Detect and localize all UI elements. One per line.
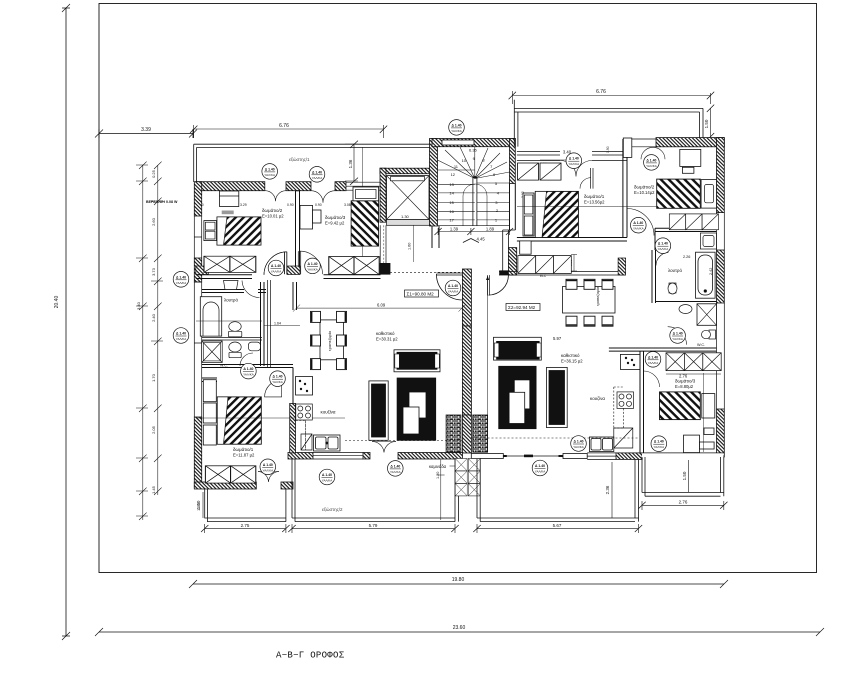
oval sink bbox=[679, 305, 692, 314]
counter dashed bbox=[614, 387, 624, 428]
planter x-boxes between balconies bbox=[455, 459, 480, 496]
svg-text:1.45: 1.45 bbox=[151, 485, 156, 494]
elevator top wall bbox=[380, 168, 432, 174]
svg-text:6.76: 6.76 bbox=[279, 123, 289, 129]
bedroom2 N wall hatched bbox=[656, 138, 724, 147]
kitchen E wall bbox=[640, 351, 644, 453]
svg-text:1.39: 1.39 bbox=[450, 227, 459, 232]
corridor dotted line bbox=[382, 271, 462, 273]
svg-text:1.70: 1.70 bbox=[151, 373, 156, 382]
bath N wall bbox=[202, 290, 244, 293]
rug/sofa block bbox=[397, 378, 436, 440]
svg-text:δωμάτιο/2: δωμάτιο/2 bbox=[634, 184, 655, 190]
svg-text:23.60: 23.60 bbox=[453, 625, 466, 631]
svg-text:δωμάτιο/2: δωμάτιο/2 bbox=[262, 207, 283, 213]
S wall of bedrooms 2,3 (corridor wall) bbox=[196, 275, 252, 279]
svg-text:16: 16 bbox=[449, 209, 454, 214]
svg-text:τραπεζαρία: τραπεζαρία bbox=[327, 330, 332, 351]
hall wall double line bbox=[268, 280, 271, 368]
svg-text:2.42: 2.42 bbox=[709, 268, 713, 275]
elevator west wall extension down to entrance jamb bbox=[380, 225, 386, 263]
WC door arc bbox=[240, 353, 253, 366]
sofa left strip bbox=[369, 381, 388, 440]
rug/sofa block bbox=[499, 366, 536, 428]
terrace parapet left bbox=[194, 144, 197, 182]
svg-text:δωμάτιο/3: δωμάτιο/3 bbox=[325, 214, 346, 220]
svg-text:15: 15 bbox=[449, 200, 454, 205]
svg-text:Α−Β−Γ ΟΡΟΦΟΣ: Α−Β−Γ ΟΡΟΦΟΣ bbox=[276, 651, 345, 661]
svg-text:ELC: ELC bbox=[540, 274, 547, 278]
wc door arcs bbox=[668, 327, 687, 345]
svg-text:καμινάδα: καμινάδα bbox=[429, 464, 447, 469]
svg-text:Ε=9.42 μ2: Ε=9.42 μ2 bbox=[325, 221, 345, 226]
svg-text:Ε=36.15 μ2: Ε=36.15 μ2 bbox=[561, 359, 583, 364]
svg-text:6.09: 6.09 bbox=[377, 303, 386, 308]
W wall window section (double thin line) bbox=[194, 282, 201, 404]
bedroom/2 door arc bbox=[264, 252, 287, 275]
svg-text:3.73: 3.73 bbox=[151, 267, 156, 276]
svg-text:3.29: 3.29 bbox=[240, 203, 247, 207]
svg-text:10: 10 bbox=[462, 158, 467, 163]
bedroom/1 nightstand column bbox=[203, 380, 216, 445]
bath N wall / bedroom2 S bbox=[655, 228, 717, 250]
svg-text:εξώστης/1: εξώστης/1 bbox=[289, 156, 310, 162]
svg-text:δωμάτιο/3: δωμάτιο/3 bbox=[675, 378, 696, 384]
svg-text:Ε=10.01 μ2: Ε=10.01 μ2 bbox=[262, 214, 284, 219]
svg-text:W.C.: W.C. bbox=[220, 364, 228, 368]
N wall seg B between doors bbox=[286, 182, 311, 191]
svg-text:2.76: 2.76 bbox=[679, 500, 688, 505]
W wall lower (hatched) bbox=[194, 404, 201, 417]
kitchen sink (left unit) bbox=[314, 435, 341, 451]
WC shower bbox=[202, 341, 223, 363]
fridge right unit bbox=[620, 354, 640, 369]
bedroom/1 door arc bbox=[265, 380, 282, 397]
desk bbox=[680, 149, 701, 173]
dashed balcony-zone lines in living rooms bbox=[345, 438, 640, 441]
svg-text:Ε=8.80μ2: Ε=8.80μ2 bbox=[675, 384, 694, 389]
E wall hatched segs bbox=[717, 138, 725, 213]
dim 6.76 over terrace bbox=[194, 125, 384, 138]
svg-text:2.05: 2.05 bbox=[151, 425, 156, 434]
stair enclosure bottom opening line bbox=[438, 225, 510, 227]
bottom dim line 19.80 bbox=[193, 583, 724, 585]
interior guide line right unit bbox=[487, 276, 489, 451]
bottom dim line 23.60 bbox=[99, 631, 820, 633]
svg-text:4.45: 4.45 bbox=[477, 237, 486, 242]
door frame niche top of divider bbox=[623, 138, 632, 157]
bath dim lines bbox=[196, 321, 300, 326]
svg-text:1.20: 1.20 bbox=[436, 472, 440, 479]
right unit entrance door bbox=[488, 275, 490, 295]
bath sink top bbox=[224, 281, 239, 290]
dim 1.36 vertical right of terrace bbox=[345, 144, 358, 181]
svg-text:5.79: 5.79 bbox=[369, 523, 378, 528]
WC toilet 2 bbox=[229, 342, 241, 358]
svg-text:0.90: 0.90 bbox=[287, 203, 294, 207]
dim 6.76 top bbox=[512, 91, 710, 104]
bedroom/2 bed bbox=[204, 217, 261, 245]
svg-text:τραπεζαρία: τραπεζαρία bbox=[596, 286, 600, 306]
svg-text:13: 13 bbox=[449, 182, 454, 187]
bedroom/1 bed bbox=[217, 397, 261, 444]
svg-text:2.60: 2.60 bbox=[151, 217, 156, 226]
wardrobe row hatched X bbox=[666, 353, 721, 371]
bed bbox=[657, 179, 717, 208]
bath λουτρό: tub bbox=[200, 297, 221, 336]
tiny wall dim labels bbox=[197, 146, 610, 232]
svg-text:12: 12 bbox=[451, 172, 456, 177]
svg-text:Ε=11.87 μ2: Ε=11.87 μ2 bbox=[233, 453, 255, 458]
Σ1 label box bbox=[405, 290, 439, 297]
bedroom/1 terrace door arcs bbox=[560, 161, 592, 177]
svg-text:Ε=30.31 μ2: Ε=30.31 μ2 bbox=[376, 337, 398, 342]
balcony left-unit living bbox=[292, 459, 455, 522]
stair bottom dims 1.39 / 1.89 / 4.45 bbox=[435, 228, 514, 243]
dim 2.76 corridor bbox=[666, 373, 721, 375]
toilet bbox=[668, 283, 677, 294]
S wall bedroom/1 (hatched) with french door gap bbox=[194, 482, 256, 489]
svg-text:20.40: 20.40 bbox=[54, 296, 60, 309]
svg-text:Ε=13.56μ2: Ε=13.56μ2 bbox=[584, 200, 605, 205]
svg-text:6.35: 6.35 bbox=[469, 148, 478, 153]
bedroom2 N window strip bbox=[627, 139, 656, 147]
TV cabinet bbox=[494, 337, 542, 360]
Σ2 label box bbox=[506, 304, 540, 311]
sofa right strip bbox=[547, 367, 568, 427]
dim line 6.09 across left unit bbox=[293, 305, 466, 312]
bedroom/3 wardrobe bbox=[329, 257, 379, 275]
bed bbox=[523, 191, 578, 237]
balcony bedroom/3 right bbox=[642, 457, 724, 496]
svg-text:14: 14 bbox=[449, 191, 454, 196]
corridor wall S of bath bbox=[202, 365, 293, 368]
svg-text:19.80: 19.80 bbox=[452, 577, 465, 583]
svg-text:δωμάτιο/1: δωμάτιο/1 bbox=[233, 446, 254, 452]
elevator bottom wall bbox=[387, 220, 431, 226]
corridor wall bbox=[609, 348, 668, 351]
svg-text:λουτρό: λουτρό bbox=[668, 267, 682, 273]
svg-text:3.08: 3.08 bbox=[344, 203, 351, 207]
hob 4 burners bbox=[296, 404, 313, 420]
S wall right unit segs bbox=[471, 454, 503, 459]
svg-text:3.39: 3.39 bbox=[141, 127, 151, 133]
counter corner diagonal bbox=[301, 434, 312, 450]
svg-text:6.76: 6.76 bbox=[596, 89, 606, 95]
svg-text:1.60: 1.60 bbox=[408, 243, 412, 250]
terrace parapet double line top bbox=[194, 144, 432, 147]
W wall upper (hatched) bbox=[194, 182, 201, 216]
door bedroom/3 at corridor wall bbox=[298, 251, 300, 274]
svg-text:καθιστικό: καθιστικό bbox=[561, 352, 580, 358]
svg-text:3.40: 3.40 bbox=[136, 301, 141, 310]
svg-text:17: 17 bbox=[449, 218, 454, 223]
svg-text:κουζίνα: κουζίνα bbox=[321, 410, 336, 415]
svg-text:W.C.: W.C. bbox=[697, 343, 705, 347]
stair step numbers bbox=[449, 148, 499, 223]
toilet lower bbox=[702, 330, 716, 339]
svg-text:Σ1=90.80 Μ2: Σ1=90.80 Μ2 bbox=[407, 291, 435, 296]
left unit entrance door bbox=[436, 273, 462, 275]
bedroom1 N wall bbox=[202, 378, 217, 382]
bedroom1 N wall (thin, under terrace) bbox=[517, 152, 627, 161]
bedroom/1 alcove partition bbox=[590, 168, 593, 189]
svg-text:1.64: 1.64 bbox=[274, 321, 281, 325]
stair treads bbox=[438, 147, 510, 226]
bedroom1|2 divider bbox=[623, 139, 627, 238]
svg-text:0.90: 0.90 bbox=[315, 203, 322, 207]
closet top-left of bedroom1 bbox=[518, 163, 539, 180]
top-left dim 3.39 bbox=[99, 129, 193, 138]
svg-text:0.90: 0.90 bbox=[606, 146, 610, 153]
svg-text:0.25: 0.25 bbox=[151, 169, 156, 178]
bedroom/1 balcony door arcs bbox=[258, 472, 279, 483]
left overall dim line 20.40 bbox=[65, 8, 67, 636]
bedroom/2 terrace door arcs bbox=[265, 191, 286, 202]
terrace parapet double line bbox=[514, 100, 703, 147]
counter corner diagonal bbox=[614, 428, 633, 448]
dim 3.40 in bedroom1 bbox=[540, 159, 580, 161]
svg-text:ΒΕΡΑ/ΟΨΗ 0.08 W: ΒΕΡΑ/ΟΨΗ 0.08 W bbox=[146, 200, 178, 204]
vertical small dims on balconies bbox=[202, 492, 204, 518]
bedroom/3 bed bbox=[351, 187, 379, 246]
kitchen sink double bbox=[589, 437, 613, 452]
svg-text:1.30: 1.30 bbox=[401, 214, 410, 219]
svg-text:2.75: 2.75 bbox=[241, 523, 250, 528]
svg-text:1.50: 1.50 bbox=[682, 471, 687, 480]
bath W wall bbox=[652, 250, 656, 303]
outer boundary rectangle bbox=[99, 4, 817, 573]
balcony bedroom/1 left bbox=[205, 489, 286, 522]
stair top wall bbox=[432, 139, 515, 147]
left unit balcony door arcs (S wall) bbox=[372, 441, 396, 452]
entrance wall stubs bbox=[432, 226, 439, 248]
bath E wall bbox=[261, 282, 265, 366]
wall bedroom/2|/3 divider bbox=[296, 191, 300, 272]
svg-text:Σ2=92.94 Μ2: Σ2=92.94 Μ2 bbox=[508, 305, 536, 310]
bath S wall / wc bbox=[656, 301, 717, 303]
svg-text:2.26: 2.26 bbox=[683, 255, 690, 259]
svg-text:5.97: 5.97 bbox=[553, 336, 562, 341]
hall wall vertical x295 bbox=[293, 282, 297, 310]
fridge bbox=[296, 377, 313, 396]
bedroom/3 terrace door arcs bbox=[311, 191, 335, 203]
hob bbox=[617, 392, 634, 409]
svg-text:κουζίνα: κουζίνα bbox=[590, 396, 605, 401]
svg-text:1.89: 1.89 bbox=[486, 227, 495, 232]
balcony right-unit living bbox=[477, 459, 639, 522]
tub bbox=[696, 252, 716, 298]
bedroom/1 wardrobe bbox=[205, 466, 255, 483]
desk bedroom/3 bbox=[684, 428, 715, 453]
small sink niche above bath bbox=[700, 233, 716, 249]
dim line inside bedroom/3 bbox=[361, 147, 363, 274]
svg-text:1.50: 1.50 bbox=[196, 502, 201, 511]
kitchen W wall (hatched strip) bbox=[290, 403, 296, 453]
stair east wall bbox=[510, 139, 516, 184]
svg-text:1.50: 1.50 bbox=[704, 119, 709, 128]
svg-text:2.36: 2.36 bbox=[605, 485, 610, 494]
dim line across right unit bbox=[517, 205, 716, 207]
svg-text:εξώστης/2: εξώστης/2 bbox=[322, 506, 343, 512]
wardrobe bbox=[669, 214, 685, 230]
walking line arc bbox=[463, 184, 487, 226]
shower with X bbox=[697, 304, 717, 326]
wc S wall bbox=[668, 348, 717, 351]
brick chimney blocks bbox=[446, 415, 461, 452]
bath/WC divider bbox=[202, 338, 262, 340]
svg-text:2.40: 2.40 bbox=[151, 313, 156, 322]
bedroom/2 door arc bbox=[264, 252, 287, 275]
bedroom/3 desk bbox=[300, 205, 321, 229]
TV cabinet top bbox=[394, 350, 440, 372]
bedroom1 S wall bbox=[517, 238, 627, 242]
svg-text:δωμάτιο/1: δωμάτιο/1 bbox=[584, 193, 605, 199]
bed bbox=[660, 392, 715, 420]
N wall of bedrooms 2,3 (hatched) seg A bbox=[196, 182, 265, 191]
bedroom/2 wardrobe bbox=[204, 191, 256, 272]
hall S wall bbox=[499, 272, 626, 276]
svg-text:καθιστικό: καθιστικό bbox=[376, 330, 395, 336]
WC small sink bbox=[248, 342, 260, 351]
svg-text:Ε=10.14μ2: Ε=10.14μ2 bbox=[634, 190, 655, 195]
stair west wall bbox=[430, 139, 438, 227]
dim 1.50 vertical right bbox=[710, 108, 712, 136]
elevator west wall bbox=[380, 168, 386, 222]
N wall seg C bbox=[335, 182, 346, 191]
S wall living area (hatched) bbox=[288, 453, 313, 460]
svg-text:1.36: 1.36 bbox=[348, 159, 353, 168]
counter dashed bbox=[296, 421, 306, 451]
svg-text:5.67: 5.67 bbox=[553, 523, 562, 528]
door arc bedroom2 (lower divider) bbox=[627, 209, 654, 236]
stair newel bbox=[473, 177, 477, 226]
balcony dims bbox=[201, 460, 728, 533]
bath toilet bbox=[228, 322, 241, 337]
hall closet diag boxes bbox=[518, 256, 571, 274]
svg-text:λουτρό: λουτρό bbox=[224, 297, 238, 303]
elevator shaft bbox=[387, 176, 430, 220]
